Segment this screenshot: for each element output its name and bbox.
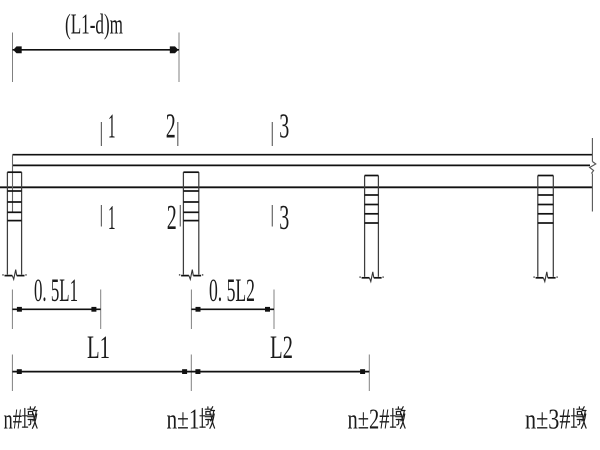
pier P4 cap and hatch lines (538, 176, 554, 224)
section tick below 2 (179, 205, 181, 227)
dimension 0.5L2 marker right (265, 307, 270, 312)
beam right edge lower (591, 174, 593, 212)
pier P4 bottom break (533, 272, 557, 282)
pier P1 bottom break (2, 270, 26, 280)
beam right break zigzag (590, 162, 596, 174)
dimension 0.5L1 extension right (100, 290, 102, 330)
dimension 0.5L2 line (191, 308, 274, 310)
section tick below 1 (100, 205, 102, 227)
top dimension extension line right (178, 33, 180, 83)
top dimension extension line left (12, 33, 14, 83)
dimension L1-L2 extension middle (190, 355, 192, 392)
svg-text:3: 3 (279, 198, 289, 237)
svg-text:L2: L2 (270, 330, 293, 366)
dimension 0.5L2 extension right (273, 290, 275, 330)
svg-text:2: 2 (167, 198, 177, 237)
dimension 0.5L1 marker left (17, 307, 22, 312)
pier P3 body (365, 176, 379, 277)
section tick above 1 (100, 122, 102, 146)
dimension 0.5L1 line (12, 308, 100, 310)
svg-text:1: 1 (108, 198, 116, 237)
pier P4 body (538, 176, 554, 277)
svg-text:(L1-d)m: (L1-d)m (65, 9, 123, 40)
svg-text:2: 2 (166, 106, 176, 145)
dimension L1-L2 extension left (11, 355, 13, 392)
pier label n+-3#DUN glyph (572, 407, 587, 429)
beam right edge upper (591, 138, 593, 162)
dimension 0.5L2 extension left (190, 290, 192, 330)
beam left end datum line (12, 155, 14, 212)
svg-text:3: 3 (279, 106, 289, 145)
svg-text:n#: n# (4, 404, 23, 436)
dimension L1 marker right (182, 369, 187, 374)
dimension L2 marker right (360, 369, 365, 374)
svg-text:1: 1 (108, 106, 116, 145)
beam top line (13, 154, 593, 156)
pier label n+-1DUN glyph (200, 407, 215, 429)
section tick above 3 (271, 122, 273, 146)
dimension L2 marker left (195, 369, 200, 374)
top dimension arrow left (13, 46, 22, 53)
section tick above 2 (177, 122, 179, 146)
top dimension arrow right (170, 46, 179, 53)
pier P2 cap and hatch lines (183, 172, 198, 220)
dimension 0.5L2 marker left (196, 307, 201, 312)
svg-text:0. 5L2: 0. 5L2 (209, 273, 255, 309)
pier P1 cap and hatch lines (7, 172, 21, 220)
top dimension line (L1-d)m (13, 49, 180, 51)
section tick below 3 (271, 205, 273, 227)
svg-text:L1: L1 (87, 330, 110, 366)
dimension 0.5L1 extension left (11, 290, 13, 330)
dimension L1-L2 line (12, 371, 369, 373)
pier P3 bottom break (359, 272, 383, 282)
svg-text:n±3#: n±3# (525, 404, 571, 436)
svg-text:n±2#: n±2# (348, 404, 390, 436)
pier label n+-2#DUN glyph (391, 407, 406, 429)
pier P3 cap and hatch lines (365, 176, 379, 224)
pier P1 body (7, 172, 21, 274)
svg-text:n±1: n±1 (167, 404, 200, 436)
dimension 0.5L1 marker right (91, 307, 96, 312)
beam second line (13, 164, 591, 166)
beam bottom line (0, 186, 592, 188)
svg-text:0. 5L1: 0. 5L1 (34, 273, 78, 309)
dimension L1-L2 extension right (368, 355, 370, 392)
dimension L1 marker left (17, 369, 22, 374)
pier P2 bottom break (179, 270, 203, 280)
pier P2 body (183, 172, 198, 274)
pier label n#DUN glyph (23, 407, 38, 429)
